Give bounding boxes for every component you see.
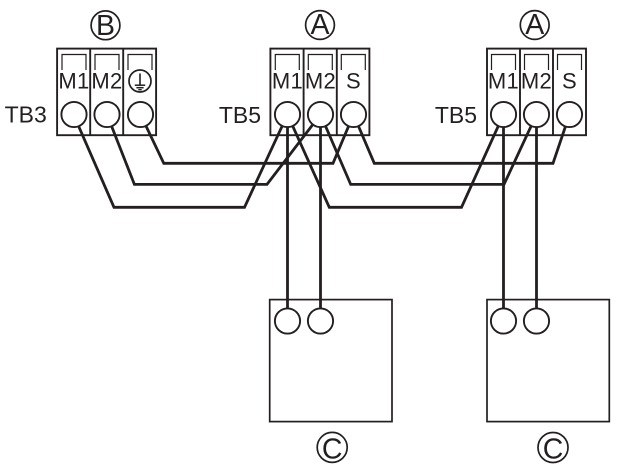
- svg-text:B: B: [96, 10, 115, 42]
- svg-text:C: C: [322, 433, 343, 465]
- svg-text:M2: M2: [91, 69, 122, 94]
- svg-text:A: A: [525, 9, 544, 41]
- svg-text:TB5: TB5: [435, 102, 477, 128]
- svg-text:M1: M1: [272, 69, 303, 94]
- svg-text:TB3: TB3: [5, 102, 47, 128]
- svg-text:S: S: [562, 69, 577, 94]
- svg-text:M2: M2: [521, 69, 552, 94]
- svg-text:C: C: [543, 433, 564, 465]
- svg-text:M1: M1: [58, 69, 89, 94]
- svg-text:S: S: [346, 69, 361, 94]
- svg-text:TB5: TB5: [219, 102, 261, 128]
- svg-text:M2: M2: [305, 69, 336, 94]
- svg-text:M1: M1: [488, 69, 519, 94]
- svg-text:A: A: [310, 9, 329, 41]
